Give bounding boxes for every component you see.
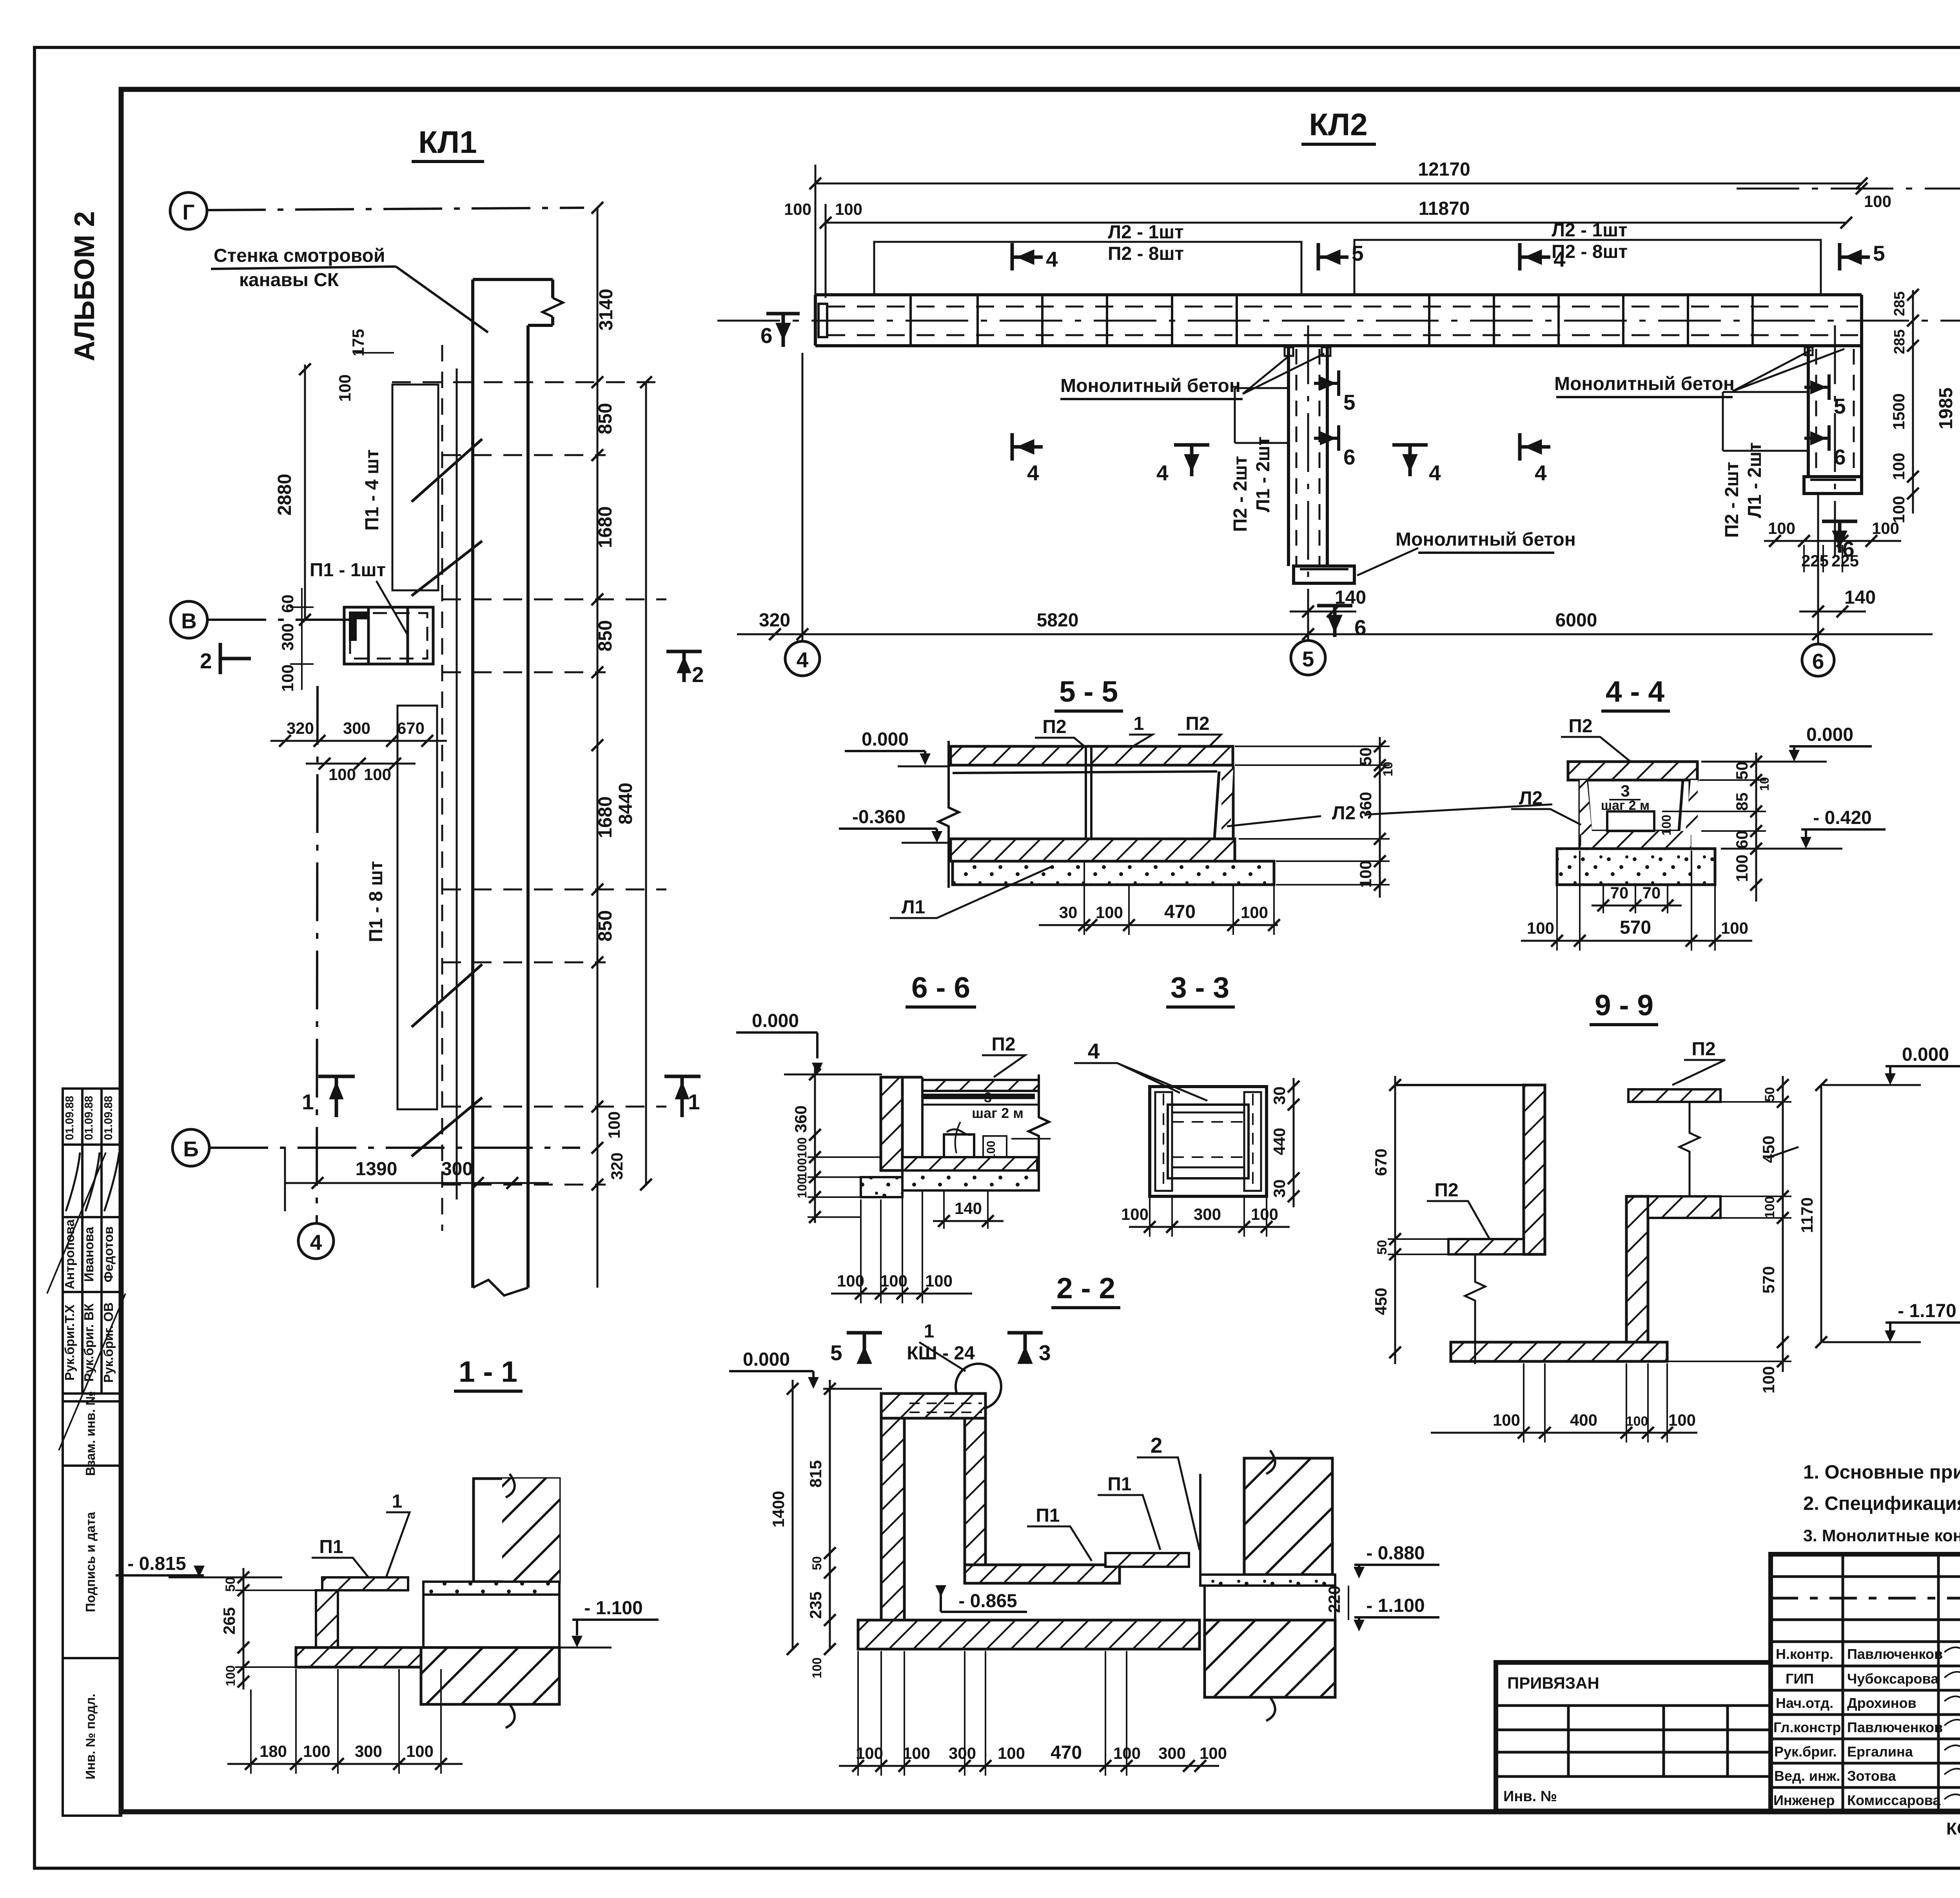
svg-text:1680: 1680 bbox=[595, 506, 616, 548]
P1-1sht box bbox=[344, 607, 433, 664]
right lower block bbox=[1205, 1620, 1335, 1697]
svg-text:Рук.бриг. ОВ: Рук.бриг. ОВ bbox=[101, 1302, 116, 1383]
svg-text:100: 100 bbox=[1241, 903, 1268, 922]
svg-text:ПРИВЯЗАН: ПРИВЯЗАН bbox=[1507, 1674, 1599, 1692]
dim 140 bbox=[933, 1220, 1004, 1222]
stipple pads bbox=[902, 1170, 1039, 1190]
P1 panel strip dashed bbox=[441, 345, 443, 1231]
inner wall vertical bbox=[965, 1418, 985, 1565]
svg-text:КЛ1: КЛ1 bbox=[418, 125, 477, 160]
svg-text:570: 570 bbox=[1759, 1266, 1778, 1294]
svg-text:815: 815 bbox=[806, 1460, 825, 1488]
svg-text:- 0.865: - 0.865 bbox=[958, 1591, 1017, 1611]
svg-text:Федотов: Федотов bbox=[101, 1227, 116, 1283]
section mark 6 below center foot bbox=[1317, 606, 1352, 637]
svg-text:П1: П1 bbox=[1036, 1505, 1060, 1526]
svg-text:100: 100 bbox=[925, 1272, 953, 1290]
axis G circle bbox=[170, 192, 207, 229]
svg-text:470: 470 bbox=[1051, 1742, 1082, 1763]
svg-text:2 - 2: 2 - 2 bbox=[1056, 1272, 1115, 1305]
section mark 2 left bbox=[220, 643, 251, 674]
svg-text:4: 4 bbox=[1156, 461, 1169, 485]
svg-text:70: 70 bbox=[1642, 884, 1661, 902]
right column bbox=[474, 1479, 559, 1582]
svg-text:70: 70 bbox=[1610, 884, 1629, 902]
panel joint dashed connectors bbox=[392, 382, 666, 1185]
svg-text:225: 225 bbox=[1801, 552, 1829, 570]
svg-text:100: 100 bbox=[223, 1665, 238, 1686]
svg-text:100: 100 bbox=[1889, 453, 1908, 480]
bottom dims 100 570 100 bbox=[1521, 940, 1752, 942]
svg-text:300: 300 bbox=[1158, 1744, 1186, 1762]
svg-text:4: 4 bbox=[1553, 247, 1566, 271]
band joints bbox=[911, 295, 1753, 346]
P1-4sht bracket bbox=[392, 385, 438, 590]
svg-text:100: 100 bbox=[837, 1272, 864, 1290]
section mark 3 down bbox=[1007, 1333, 1043, 1362]
svg-text:100: 100 bbox=[303, 1742, 330, 1760]
svg-text:Взам. инв. №: Взам. инв. № bbox=[83, 1391, 98, 1476]
svg-text:450: 450 bbox=[1372, 1288, 1390, 1315]
svg-text:3: 3 bbox=[984, 1089, 992, 1105]
svg-text:КЛ2: КЛ2 bbox=[1309, 107, 1367, 142]
section mark 5 top-right bbox=[1840, 243, 1870, 270]
dim 1170 bbox=[1820, 1085, 1822, 1342]
section mark 2 right bbox=[666, 651, 702, 682]
bottom slab bbox=[951, 839, 1235, 861]
left signature stamp strip bbox=[47, 1089, 125, 1816]
svg-text:50: 50 bbox=[223, 1577, 238, 1592]
svg-text:1400: 1400 bbox=[769, 1491, 788, 1527]
bracket L2-1sht P2-8sht right bbox=[1354, 240, 1821, 295]
axis 4 circle bbox=[298, 1223, 334, 1259]
svg-text:Л2 - 1шт: Л2 - 1шт bbox=[1552, 220, 1627, 241]
svg-text:60: 60 bbox=[278, 595, 297, 613]
channel bottom slab bbox=[965, 1565, 1120, 1583]
svg-text:140: 140 bbox=[1844, 587, 1876, 608]
svg-text:30: 30 bbox=[1270, 1087, 1289, 1105]
stipple footing bbox=[953, 861, 1274, 885]
right break edge bbox=[1029, 1074, 1049, 1190]
left dim columns bbox=[829, 1380, 831, 1650]
vertical break line right bbox=[1679, 1102, 1700, 1196]
svg-text:320: 320 bbox=[287, 719, 314, 737]
svg-text:П1 - 8 шт: П1 - 8 шт bbox=[366, 861, 387, 942]
section mark 6 left bbox=[766, 314, 800, 347]
svg-text:100: 100 bbox=[1356, 860, 1375, 888]
P1 slab piece bbox=[1105, 1553, 1189, 1567]
bottom dims 70 70 bbox=[1592, 905, 1682, 907]
svg-text:450: 450 bbox=[1759, 1136, 1778, 1163]
left wall vertical bbox=[881, 1418, 904, 1622]
svg-text:0.000: 0.000 bbox=[1806, 724, 1853, 745]
svg-text:670: 670 bbox=[397, 719, 425, 737]
svg-text:3140: 3140 bbox=[596, 289, 617, 331]
bottom dims bbox=[839, 1765, 1219, 1767]
svg-text:Б: Б bbox=[183, 1137, 199, 1161]
dims 285 285 1500 100 100 on x=4880 bbox=[1912, 290, 1914, 514]
svg-text:- 1.170: - 1.170 bbox=[1898, 1301, 1956, 1321]
axis G right with circle bbox=[1737, 188, 1960, 190]
cavity verticals bbox=[1199, 1474, 1201, 1575]
band center axis bbox=[717, 320, 1960, 322]
svg-text:100: 100 bbox=[328, 765, 356, 784]
svg-text:1: 1 bbox=[302, 1090, 314, 1114]
svg-text:220: 220 bbox=[1325, 1586, 1343, 1613]
right upper block bbox=[1244, 1458, 1332, 1575]
svg-text:300: 300 bbox=[1194, 1205, 1221, 1223]
svg-text:Монолитный бетон: Монолитный бетон bbox=[1396, 529, 1576, 550]
svg-text:Подпись и дата: Подпись и дата bbox=[83, 1512, 98, 1612]
left dim column bbox=[1394, 1076, 1396, 1364]
leader strokes through panels bbox=[412, 439, 482, 1156]
svg-text:100: 100 bbox=[1200, 1744, 1227, 1762]
bottom dim row bbox=[737, 633, 1933, 635]
left dim column bbox=[243, 1568, 245, 1689]
svg-text:440: 440 bbox=[1270, 1128, 1289, 1155]
dim 140 center bbox=[1290, 611, 1356, 613]
wall inner white strip bbox=[921, 1077, 924, 1157]
section mark 4 top-a bbox=[1012, 243, 1043, 270]
right L2 wall bbox=[1214, 766, 1233, 839]
axis B circle bbox=[172, 1129, 209, 1166]
svg-text:3: 3 bbox=[1039, 1341, 1051, 1365]
svg-text:П2: П2 bbox=[991, 1034, 1015, 1055]
band inner dashed lines bbox=[827, 306, 1862, 308]
svg-text:4: 4 bbox=[1027, 461, 1039, 485]
svg-text:01.09.88: 01.09.88 bbox=[83, 1096, 95, 1140]
svg-text:Чубоксарова: Чубоксарова bbox=[1847, 1671, 1939, 1687]
svg-text:100: 100 bbox=[784, 200, 811, 218]
svg-text:50: 50 bbox=[1356, 748, 1375, 766]
svg-text:100: 100 bbox=[1527, 919, 1554, 937]
svg-text:-0.360: -0.360 bbox=[852, 807, 906, 827]
svg-text:5: 5 bbox=[1873, 241, 1885, 265]
svg-text:100: 100 bbox=[1668, 1411, 1696, 1429]
svg-text:100: 100 bbox=[1762, 1196, 1777, 1219]
SK wall outline bbox=[473, 279, 563, 1296]
svg-text:канавы СК: канавы СК bbox=[239, 270, 339, 290]
signature table bbox=[1771, 1554, 1960, 1811]
top slab hatched bbox=[922, 1080, 1039, 1091]
svg-text:шаг 2 м: шаг 2 м bbox=[972, 1105, 1024, 1121]
svg-text:5820: 5820 bbox=[1037, 610, 1079, 631]
svg-text:100: 100 bbox=[795, 1158, 809, 1179]
svg-text:ГИП: ГИП bbox=[1786, 1671, 1814, 1687]
svg-text:Антропова: Антропова bbox=[62, 1219, 77, 1289]
left wall bbox=[1524, 1085, 1545, 1254]
svg-text:235: 235 bbox=[806, 1591, 825, 1619]
svg-text:470: 470 bbox=[1164, 902, 1196, 922]
svg-text:285: 285 bbox=[1891, 291, 1908, 316]
svg-text:225: 225 bbox=[1831, 552, 1859, 570]
svg-text:10: 10 bbox=[1757, 777, 1771, 791]
svg-text:60: 60 bbox=[1733, 831, 1751, 849]
dim 12170 bbox=[815, 183, 1862, 185]
svg-text:100: 100 bbox=[1251, 1205, 1278, 1223]
svg-text:320: 320 bbox=[608, 1152, 626, 1180]
svg-text:0.000: 0.000 bbox=[862, 729, 909, 750]
svg-text:Дрохинов: Дрохинов bbox=[1847, 1695, 1916, 1711]
signatures squiggles bbox=[1944, 1647, 1960, 1804]
svg-text:П2: П2 bbox=[1568, 716, 1592, 737]
svg-text:100: 100 bbox=[1721, 919, 1748, 937]
svg-text:100: 100 bbox=[856, 1744, 883, 1762]
svg-text:П2 - 8шт: П2 - 8шт bbox=[1108, 243, 1184, 264]
svg-text:КОПИРОВАЛ:: КОПИРОВАЛ: bbox=[1946, 1819, 1960, 1838]
svg-text:0.000: 0.000 bbox=[743, 1349, 790, 1370]
svg-text:4 - 4: 4 - 4 bbox=[1606, 675, 1664, 708]
svg-text:6: 6 bbox=[760, 323, 773, 348]
svg-text:300: 300 bbox=[949, 1744, 976, 1762]
svg-text:12170: 12170 bbox=[1418, 159, 1470, 180]
svg-text:6 - 6: 6 - 6 bbox=[911, 971, 970, 1004]
channel band outline bbox=[815, 295, 1862, 346]
right dim column bbox=[1379, 737, 1381, 898]
svg-text:100: 100 bbox=[1113, 1744, 1141, 1762]
svg-text:0.000: 0.000 bbox=[1902, 1044, 1949, 1065]
svg-text:850: 850 bbox=[595, 620, 616, 651]
section mark 5 inside right drop bbox=[1804, 374, 1829, 400]
svg-text:100: 100 bbox=[1493, 1411, 1520, 1429]
svg-text:1: 1 bbox=[392, 1491, 403, 1512]
svg-text:2. Спецификация и ведомость ра: 2. Спецификация и ведомость расхода стал… bbox=[1803, 1493, 1960, 1514]
svg-text:П2 - 2шт: П2 - 2шт bbox=[1230, 456, 1251, 532]
dark L1 band bbox=[924, 1094, 1035, 1099]
svg-text:100: 100 bbox=[1121, 1205, 1149, 1223]
svg-text:570: 570 bbox=[1620, 917, 1651, 938]
svg-text:Л1 - 2шт: Л1 - 2шт bbox=[1253, 436, 1274, 512]
svg-text:100: 100 bbox=[1626, 1414, 1648, 1429]
svg-text:Нач.отд.: Нач.отд. bbox=[1776, 1695, 1833, 1711]
box outer bbox=[1150, 1087, 1267, 1196]
left L wall hatched bbox=[881, 1077, 902, 1170]
svg-text:30: 30 bbox=[1270, 1179, 1289, 1198]
lower right block bbox=[421, 1648, 559, 1704]
svg-text:100: 100 bbox=[336, 374, 354, 402]
svg-text:100: 100 bbox=[835, 200, 862, 218]
svg-text:3: 3 bbox=[1621, 782, 1630, 800]
svg-text:11870: 11870 bbox=[1419, 198, 1470, 219]
svg-text:670: 670 bbox=[1372, 1149, 1390, 1176]
section mark 5 down bbox=[847, 1333, 882, 1362]
svg-text:1985: 1985 bbox=[1936, 388, 1956, 430]
svg-text:В: В bbox=[181, 609, 197, 633]
svg-text:100: 100 bbox=[364, 765, 391, 784]
svg-text:100: 100 bbox=[1759, 1366, 1778, 1394]
svg-text:50: 50 bbox=[810, 1556, 824, 1570]
svg-text:300: 300 bbox=[441, 1159, 473, 1179]
svg-text:Стенка смотровой: Стенка смотровой bbox=[214, 245, 385, 266]
axis G line bbox=[207, 208, 584, 210]
section mark 4 up mid-left bbox=[1174, 445, 1209, 476]
svg-text:100: 100 bbox=[1864, 192, 1891, 210]
section mark 6 inside right drop bbox=[1804, 425, 1829, 451]
dim 140 right bbox=[1799, 611, 1866, 613]
svg-text:4: 4 bbox=[797, 648, 809, 672]
svg-text:1 - 1: 1 - 1 bbox=[459, 1355, 517, 1388]
svg-text:Рук.бриг.Т.Х: Рук.бриг.Т.Х bbox=[62, 1305, 77, 1381]
svg-text:1: 1 bbox=[924, 1321, 935, 1342]
svg-text:П2: П2 bbox=[1042, 717, 1066, 737]
dims 320 300 670 below P1-1sht bbox=[270, 740, 447, 742]
svg-text:2880: 2880 bbox=[274, 474, 295, 516]
svg-text:1: 1 bbox=[1134, 713, 1144, 734]
bottom slab hatched bbox=[902, 1157, 1037, 1170]
bottom dims 100 100 100 bbox=[831, 1293, 972, 1295]
section mark 1 left bbox=[318, 1076, 355, 1117]
svg-text:1. Основные примечания даны на: 1. Основные примечания даны на листе КШ-… bbox=[1803, 1462, 1960, 1483]
far right dim 8440 bbox=[645, 382, 647, 1185]
svg-text:Инженер: Инженер bbox=[1773, 1792, 1835, 1808]
svg-text:П1 - 1шт: П1 - 1шт bbox=[310, 560, 386, 581]
center T-drop bbox=[1289, 346, 1354, 583]
svg-text:1: 1 bbox=[688, 1090, 700, 1114]
lower slab bbox=[296, 1648, 423, 1667]
level line 0.000 top bbox=[1395, 1084, 1529, 1086]
svg-text:Комиссарова: Комиссарова bbox=[1847, 1792, 1941, 1808]
P1-8sht bracket bbox=[397, 706, 437, 1109]
svg-text:Л2: Л2 bbox=[1332, 803, 1356, 824]
svg-text:6: 6 bbox=[1343, 445, 1356, 469]
level -0.865 bbox=[935, 1585, 946, 1597]
svg-text:- 1.100: - 1.100 bbox=[1366, 1595, 1425, 1616]
svg-text:П2 - 2шт: П2 - 2шт bbox=[1722, 462, 1742, 538]
ksh element dashes bbox=[909, 1403, 982, 1404]
svg-text:П1 - 4 шт: П1 - 4 шт bbox=[362, 449, 383, 530]
dim 2880 bbox=[304, 365, 306, 620]
top slab bbox=[1568, 762, 1697, 780]
svg-text:320: 320 bbox=[759, 610, 790, 631]
svg-text:1390: 1390 bbox=[356, 1159, 397, 1179]
svg-text:Рук.бриг. ВК: Рук.бриг. ВК bbox=[82, 1303, 96, 1381]
svg-text:Иванова: Иванова bbox=[82, 1227, 96, 1282]
svg-text:140: 140 bbox=[1335, 587, 1366, 608]
stipple strip bbox=[423, 1582, 559, 1595]
svg-text:30: 30 bbox=[1059, 903, 1078, 922]
dim 11870 bbox=[826, 222, 1846, 224]
section mark 4 bottom-b bbox=[1520, 433, 1550, 461]
left wall bbox=[316, 1590, 338, 1649]
svg-text:Павлюченков: Павлюченков bbox=[1847, 1646, 1943, 1662]
svg-text:П2: П2 bbox=[1691, 1039, 1715, 1060]
svg-text:5: 5 bbox=[830, 1341, 842, 1365]
svg-text:140: 140 bbox=[955, 1199, 982, 1218]
svg-text:6: 6 bbox=[1354, 615, 1367, 640]
svg-text:Инв. №: Инв. № bbox=[1503, 1788, 1557, 1805]
dims 100 225 225 right foot bbox=[1764, 540, 1901, 542]
axis V line bbox=[207, 619, 355, 621]
svg-text:1500: 1500 bbox=[1889, 393, 1908, 430]
right dim column bbox=[1755, 753, 1757, 902]
svg-text:100: 100 bbox=[1889, 496, 1908, 523]
svg-text:4: 4 bbox=[1535, 461, 1547, 485]
svg-text:100: 100 bbox=[406, 1742, 434, 1760]
svg-text:4: 4 bbox=[1046, 247, 1058, 271]
svg-text:П1: П1 bbox=[1107, 1474, 1131, 1495]
svg-text:2: 2 bbox=[1151, 1433, 1163, 1457]
svg-text:100: 100 bbox=[1096, 903, 1123, 922]
svg-text:5 - 5: 5 - 5 bbox=[1059, 675, 1118, 708]
svg-text:П2: П2 bbox=[1185, 713, 1209, 734]
bottom dims 30 100 470 100 bbox=[1039, 924, 1278, 926]
svg-text:100: 100 bbox=[795, 1177, 809, 1198]
hanging P2 slab bbox=[1628, 1089, 1720, 1102]
svg-text:4: 4 bbox=[310, 1230, 322, 1254]
svg-text:5: 5 bbox=[1343, 390, 1356, 414]
left wall edge with break bbox=[938, 741, 959, 888]
svg-text:П1: П1 bbox=[319, 1537, 343, 1557]
section mark 6 inside drop bbox=[1314, 425, 1339, 451]
svg-text:9 - 9: 9 - 9 bbox=[1595, 989, 1653, 1022]
svg-text:Л1: Л1 bbox=[902, 897, 925, 918]
section mark 6 below right foot bbox=[1822, 521, 1857, 553]
left pривязан table bbox=[1496, 1662, 1771, 1811]
svg-text:100: 100 bbox=[605, 1111, 623, 1139]
svg-text:50: 50 bbox=[1375, 1240, 1390, 1255]
svg-text:2: 2 bbox=[200, 649, 212, 673]
svg-text:360: 360 bbox=[791, 1105, 810, 1133]
svg-text:6000: 6000 bbox=[1555, 610, 1597, 631]
svg-text:3 - 3: 3 - 3 bbox=[1171, 971, 1229, 1004]
svg-text:Г: Г bbox=[182, 200, 194, 224]
svg-text:100: 100 bbox=[1733, 855, 1751, 882]
right dims bbox=[1293, 1078, 1295, 1207]
left slab bbox=[1448, 1239, 1524, 1254]
svg-text:- 1.100: - 1.100 bbox=[584, 1598, 642, 1619]
svg-text:Вед. инж.: Вед. инж. bbox=[1774, 1768, 1840, 1784]
bottom slab bbox=[1451, 1342, 1667, 1361]
bottom dims bbox=[1431, 1432, 1697, 1434]
bottom dims 1390 300 bbox=[285, 1182, 549, 1184]
axis circles 4 5 6 bbox=[802, 353, 804, 641]
svg-text:КШ - 24: КШ - 24 bbox=[907, 1343, 975, 1364]
svg-text:10: 10 bbox=[1381, 762, 1396, 777]
left wall top bar bbox=[881, 1394, 985, 1418]
svg-text:4: 4 bbox=[1429, 461, 1441, 485]
svg-text:Зотова: Зотова bbox=[1847, 1768, 1896, 1784]
small dims left of box: 60 300 100 bbox=[290, 588, 314, 690]
svg-text:4: 4 bbox=[1088, 1039, 1100, 1063]
svg-text:5: 5 bbox=[1352, 241, 1364, 265]
right dim column bbox=[1782, 1076, 1784, 1372]
svg-text:01.09.88: 01.09.88 bbox=[102, 1096, 115, 1140]
svg-text:6: 6 bbox=[1812, 649, 1824, 673]
middle wall bbox=[1626, 1196, 1648, 1355]
svg-text:П2: П2 bbox=[1434, 1180, 1458, 1201]
svg-text:1680: 1680 bbox=[595, 797, 616, 838]
top slab bbox=[951, 746, 1233, 765]
right dim line with segment ticks bbox=[597, 208, 599, 1288]
section mark 5 top-a bbox=[1318, 243, 1348, 270]
svg-text:0.000: 0.000 bbox=[752, 1011, 799, 1031]
small block bbox=[944, 1134, 974, 1157]
svg-text:Ергалина: Ергалина bbox=[1847, 1744, 1913, 1760]
svg-text:Гл.констр.: Гл.констр. bbox=[1773, 1719, 1845, 1735]
signature rows text bbox=[1773, 1646, 1943, 1808]
right T-drop bbox=[1804, 346, 1862, 494]
svg-text:100: 100 bbox=[1659, 815, 1673, 835]
svg-text:100: 100 bbox=[903, 1744, 930, 1762]
svg-text:100: 100 bbox=[795, 1137, 809, 1158]
long bottom slab bbox=[858, 1620, 1200, 1649]
svg-text:Н.контр.: Н.контр. bbox=[1776, 1646, 1833, 1662]
zig break on right dim bbox=[1767, 1147, 1798, 1158]
top slab P1 bbox=[322, 1577, 408, 1590]
svg-text:- 0.815: - 0.815 bbox=[127, 1553, 186, 1574]
svg-text:265: 265 bbox=[220, 1607, 238, 1635]
svg-text:300: 300 bbox=[278, 623, 297, 651]
